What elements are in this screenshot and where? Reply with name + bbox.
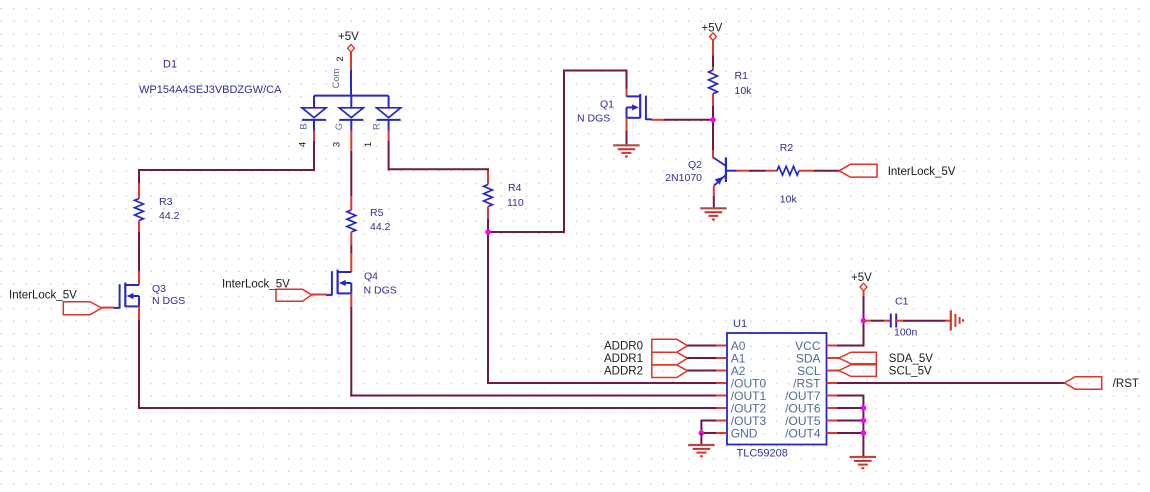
svg-text:TLC59208: TLC59208 bbox=[737, 448, 788, 460]
junction /OUT6 bbox=[861, 405, 867, 411]
wire C1 to ground bbox=[896, 320, 904, 322]
wire B cathode down bbox=[313, 141, 315, 171]
svg-text:InterLock_5V: InterLock_5V bbox=[222, 279, 290, 291]
transistor Q1 bbox=[577, 89, 665, 132]
svg-text:R4: R4 bbox=[508, 182, 522, 194]
svg-text:R3: R3 bbox=[159, 196, 173, 208]
diode D1-R bbox=[377, 96, 401, 131]
power +5V (VCC) bbox=[851, 272, 872, 291]
resistor R2 bbox=[765, 142, 814, 206]
wire to R3 column bbox=[138, 169, 315, 171]
wire /OUT7 bbox=[837, 395, 864, 397]
svg-text:N DGS: N DGS bbox=[577, 113, 610, 125]
pin stub SDA bbox=[827, 357, 840, 359]
wire +5V to R1 bbox=[712, 40, 714, 56]
svg-text:R5: R5 bbox=[370, 207, 384, 219]
svg-text:C1: C1 bbox=[895, 296, 909, 308]
ground (Q2) bbox=[700, 208, 726, 219]
pin stub /OUT1 bbox=[716, 395, 727, 397]
port InterLock_5V (right) bbox=[839, 164, 956, 178]
diode D1-G bbox=[339, 96, 363, 131]
junction VCC node bbox=[861, 318, 867, 324]
IC U1 box bbox=[727, 333, 827, 445]
svg-text:Com: Com bbox=[331, 68, 342, 88]
power +5V (LED common) bbox=[338, 31, 359, 52]
junction R4 node bbox=[485, 229, 491, 235]
svg-text:Q4: Q4 bbox=[364, 271, 378, 283]
port SDA_5V bbox=[839, 352, 933, 365]
port InterLock_5V (Q4) bbox=[222, 279, 312, 302]
pin stub /OUT2 bbox=[716, 407, 727, 409]
svg-text:100n: 100n bbox=[894, 327, 918, 339]
resistor R1 bbox=[709, 67, 753, 107]
transistor Q3 bbox=[102, 271, 185, 320]
wire /OUT1 row bbox=[350, 395, 716, 397]
svg-text:B: B bbox=[299, 123, 310, 129]
wire Q4 source down bbox=[350, 307, 352, 397]
svg-text:SCL_5V: SCL_5V bbox=[889, 365, 932, 377]
port /RST bbox=[1064, 377, 1139, 390]
svg-text:N DGS: N DGS bbox=[152, 295, 185, 307]
wire out bus down bbox=[862, 396, 864, 458]
svg-text:/RST: /RST bbox=[1113, 378, 1139, 390]
pin stub /OUT5 bbox=[827, 420, 838, 422]
port InterLock_5V (Q3) bbox=[9, 290, 102, 315]
wire loop down to Q1 drain bbox=[626, 71, 628, 90]
wire junction R4 right bbox=[488, 231, 565, 233]
pin stub D1-B cathode bbox=[313, 131, 315, 142]
wire /OUT2 row bbox=[138, 407, 716, 409]
wire R cathode down bbox=[388, 141, 390, 170]
svg-text:4: 4 bbox=[298, 142, 309, 147]
svg-text:+5V: +5V bbox=[851, 272, 872, 284]
transistor Q4 bbox=[312, 253, 397, 307]
wire R3 to Q3 bbox=[138, 232, 140, 272]
svg-text:ADDR0: ADDR0 bbox=[604, 341, 643, 353]
svg-text:10k: 10k bbox=[735, 85, 753, 97]
wire /OUT4 bbox=[837, 432, 864, 434]
wire Q1 loop top bbox=[563, 70, 628, 72]
wire GND down bbox=[700, 433, 702, 445]
port ADDR1 bbox=[604, 352, 687, 365]
junction /OUT5 bbox=[861, 418, 867, 424]
wire R5 to Q4 bbox=[350, 246, 352, 254]
diode D1-B bbox=[302, 96, 326, 131]
wire up to Q1 loop bbox=[563, 70, 565, 233]
svg-text:D1: D1 bbox=[163, 59, 177, 71]
wire Q1 source to ground bbox=[626, 131, 628, 145]
svg-text:ADDR2: ADDR2 bbox=[604, 366, 643, 378]
svg-text:GND: GND bbox=[731, 426, 758, 440]
svg-text:1: 1 bbox=[363, 142, 374, 147]
svg-text:110: 110 bbox=[507, 197, 524, 209]
pin stub Q2 collector bbox=[712, 150, 714, 158]
svg-text:44.2: 44.2 bbox=[159, 210, 180, 222]
wire ADDR0 to pin bbox=[687, 345, 716, 347]
pin stub D1-G cathode bbox=[350, 131, 352, 152]
pin stub /OUT4 bbox=[827, 432, 838, 434]
junction GND node bbox=[699, 430, 705, 436]
svg-text:R1: R1 bbox=[735, 70, 749, 82]
svg-text:R: R bbox=[371, 123, 382, 130]
pin stub /OUT7 bbox=[827, 395, 838, 397]
port ADDR0 bbox=[604, 339, 687, 352]
wire R4 down to /OUT0 bbox=[487, 219, 489, 384]
svg-text:Q1: Q1 bbox=[600, 99, 614, 111]
pin stub /RST bbox=[827, 382, 838, 384]
port SCL_5V bbox=[839, 365, 932, 378]
pin stub D1-R cathode bbox=[388, 131, 390, 142]
wire down to R3 bbox=[138, 169, 140, 183]
pin Com 2 lead bbox=[350, 70, 352, 96]
wire +5V to D1 Com pin bbox=[350, 52, 352, 70]
svg-text:ADDR1: ADDR1 bbox=[604, 353, 643, 365]
wire to R4 column bbox=[388, 168, 489, 170]
pin stub GND bbox=[716, 432, 727, 434]
wire Q1 gate to R1 node bbox=[664, 119, 714, 121]
svg-text:3: 3 bbox=[332, 142, 343, 147]
wire VCC to +5V node bbox=[837, 345, 865, 347]
wire Q2 emitter to ground bbox=[713, 186, 715, 197]
resistor R3 bbox=[135, 183, 180, 232]
wire /OUT3 bbox=[700, 420, 716, 422]
ground (U1) bbox=[688, 445, 714, 456]
pin stub SCL bbox=[827, 370, 840, 372]
svg-text:WP154A4SEJ3VBDZGW/CA: WP154A4SEJ3VBDZGW/CA bbox=[139, 84, 282, 96]
wire +5V stem bbox=[863, 290, 865, 296]
junction /OUT4 bbox=[861, 430, 867, 436]
power +5V (R1) bbox=[702, 23, 723, 41]
wire Q3 source down bbox=[138, 320, 140, 409]
wire /OUT0 row bbox=[488, 382, 716, 384]
wire ADDR1 to pin bbox=[687, 357, 716, 359]
wire ADDR2 to pin bbox=[687, 370, 716, 372]
svg-text:InterLock_5V: InterLock_5V bbox=[9, 290, 77, 302]
svg-text:2N1070: 2N1070 bbox=[665, 172, 702, 184]
svg-text:+5V: +5V bbox=[702, 23, 723, 35]
wire R1 to Q2 bbox=[712, 106, 714, 151]
svg-text:Q3: Q3 bbox=[152, 283, 166, 295]
resistor R5 bbox=[347, 196, 391, 246]
ground (C1, rotated) bbox=[951, 310, 963, 330]
svg-text:R2: R2 bbox=[780, 142, 794, 154]
wire /RST bbox=[837, 382, 1065, 384]
ground (Q1) bbox=[613, 145, 639, 156]
transistor Q2 bbox=[665, 157, 736, 185]
svg-text:SDA_5V: SDA_5V bbox=[889, 353, 933, 365]
svg-text:/OUT4: /OUT4 bbox=[785, 426, 821, 440]
wire /OUT6 bbox=[837, 407, 864, 409]
port ADDR2 bbox=[604, 365, 687, 378]
svg-text:Q2: Q2 bbox=[688, 159, 702, 171]
pin stub /OUT0 bbox=[716, 382, 727, 384]
wire Q2 base to R2 bbox=[737, 170, 750, 172]
svg-text:2: 2 bbox=[335, 56, 346, 61]
junction R1 node bbox=[710, 117, 716, 123]
svg-text:N DGS: N DGS bbox=[364, 285, 397, 297]
svg-text:G: G bbox=[334, 123, 345, 130]
pin stub /OUT3 bbox=[716, 420, 727, 422]
ground (out bus) bbox=[850, 457, 876, 468]
resistor R4 bbox=[484, 169, 524, 219]
pin stub /OUT6 bbox=[827, 407, 838, 409]
wire G cathode down bbox=[350, 151, 352, 196]
svg-text:+5V: +5V bbox=[338, 31, 359, 43]
wire GND bbox=[700, 432, 716, 434]
svg-text:U1: U1 bbox=[733, 318, 747, 330]
LED D1 common anode bar bbox=[314, 95, 389, 97]
svg-text:10k: 10k bbox=[780, 194, 798, 206]
wire /OUT5 bbox=[837, 420, 864, 422]
wire R2 to port bbox=[814, 170, 840, 172]
pin stub VCC bbox=[827, 345, 838, 347]
capacitor C1 bbox=[864, 296, 918, 339]
svg-text:InterLock_5V: InterLock_5V bbox=[888, 166, 956, 178]
svg-text:44.2: 44.2 bbox=[370, 221, 391, 233]
